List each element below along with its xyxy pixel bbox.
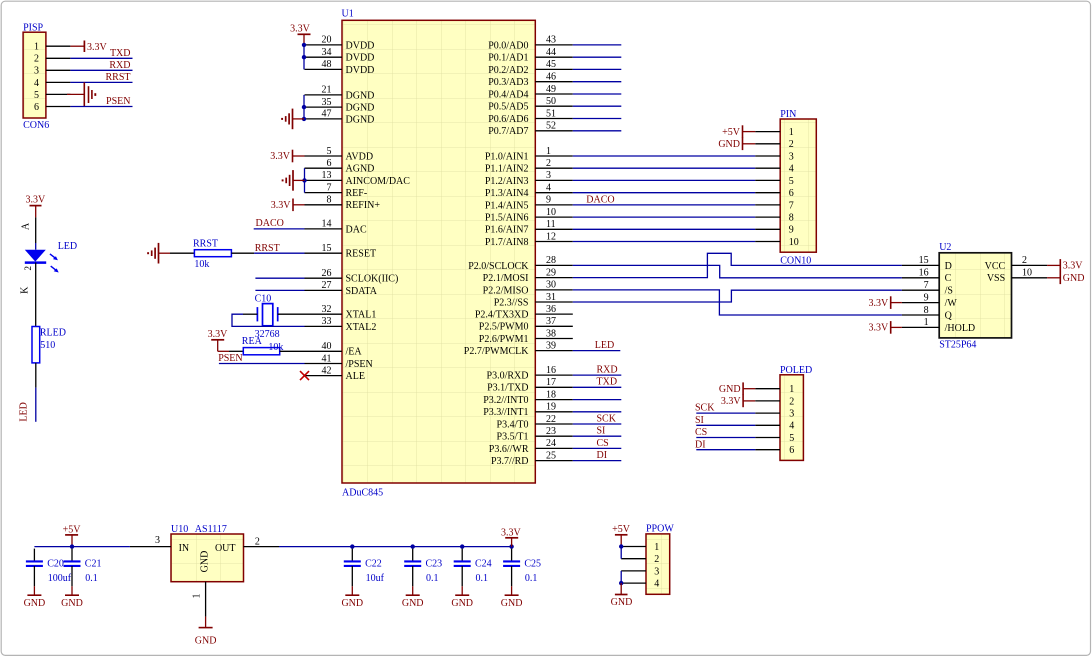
power 3.3V to AVDD pin5 bbox=[270, 150, 304, 163]
U1 pin 24 P3.6//WR bbox=[489, 438, 573, 455]
svg-text:AS1117: AS1117 bbox=[195, 524, 227, 535]
wire net LED below RLED bbox=[19, 363, 36, 422]
svg-text:REA: REA bbox=[242, 336, 263, 347]
U1 pin 19 P3.3//INT1 bbox=[483, 402, 573, 419]
U1 pin 37 P2.5/PWM0 bbox=[479, 316, 573, 333]
svg-text:3.3V: 3.3V bbox=[721, 396, 742, 407]
svg-text:0.1: 0.1 bbox=[426, 573, 439, 584]
capacitor C22 bbox=[344, 549, 385, 587]
svg-text:DGND: DGND bbox=[346, 114, 375, 125]
svg-text:AINCOM/DAC: AINCOM/DAC bbox=[346, 176, 411, 187]
power +5V at CON10 pin1 bbox=[722, 125, 755, 138]
wire P3 stub nc bbox=[573, 399, 622, 401]
U1 pin 42 ALE bbox=[305, 365, 365, 382]
power 3.3V at LED anode bbox=[26, 195, 47, 218]
U1 pin 31 P2.3//SS bbox=[494, 292, 573, 309]
wire DVDD vertical bbox=[303, 45, 305, 70]
svg-text:18: 18 bbox=[546, 389, 556, 400]
U1 pin 43 P0.0/AD0 bbox=[488, 35, 573, 52]
regulator U10 AS1117 bbox=[171, 524, 244, 582]
wire P0 stub bbox=[573, 118, 622, 120]
power GND at POLED pin1 bbox=[719, 382, 755, 395]
svg-text:C21: C21 bbox=[85, 558, 102, 569]
svg-text:DAC: DAC bbox=[346, 224, 367, 235]
U1 pin 5 AVDD bbox=[305, 146, 374, 163]
svg-text:CS: CS bbox=[597, 438, 609, 449]
svg-text:43: 43 bbox=[546, 35, 556, 46]
svg-text:5: 5 bbox=[34, 90, 39, 101]
wire P1.7 to CON10 bbox=[573, 241, 755, 243]
svg-text:12: 12 bbox=[546, 231, 556, 242]
power +5V at PPOW pins1-2 bbox=[612, 524, 631, 547]
svg-text:9: 9 bbox=[546, 195, 551, 206]
IC U2 ST25P64 box bbox=[939, 242, 1011, 351]
wire P1.6 to CON10 bbox=[573, 228, 755, 230]
U1 pin 33 XTAL2 bbox=[305, 316, 377, 333]
svg-text:GND: GND bbox=[341, 598, 363, 609]
U1 pin 8 REFIN+ bbox=[305, 195, 381, 212]
U1 pin 26 SCLOK(IIC) bbox=[305, 268, 399, 285]
svg-text:XTAL2: XTAL2 bbox=[346, 322, 377, 333]
wire P3 stub SCK bbox=[573, 413, 622, 424]
svg-text:2: 2 bbox=[1022, 255, 1027, 266]
svg-text:C25: C25 bbox=[524, 558, 541, 569]
svg-text:2: 2 bbox=[23, 266, 33, 271]
U1 pin 40 /EA bbox=[305, 341, 363, 358]
crystal C10 32768 bbox=[255, 293, 280, 340]
U2 pin 8 Q bbox=[902, 305, 953, 322]
svg-text:RRST: RRST bbox=[255, 243, 280, 254]
svg-text:31: 31 bbox=[546, 292, 556, 303]
svg-text:3.3V: 3.3V bbox=[868, 298, 889, 309]
svg-text:ADuC845: ADuC845 bbox=[342, 488, 383, 499]
svg-text:PSEN: PSEN bbox=[218, 353, 242, 364]
svg-text:13: 13 bbox=[322, 170, 332, 181]
U1 pin 36 P2.4/TX3XD bbox=[475, 304, 573, 321]
LED D? diode symbol bbox=[23, 241, 77, 273]
svg-text:A: A bbox=[20, 222, 31, 230]
svg-text:51: 51 bbox=[546, 108, 556, 119]
svg-text:30: 30 bbox=[546, 280, 556, 291]
U1 pin 47 DGND bbox=[305, 109, 375, 126]
ground symbol below C20 bbox=[24, 586, 46, 609]
svg-text:GND: GND bbox=[451, 598, 473, 609]
svg-text:PIN: PIN bbox=[780, 109, 796, 120]
svg-text:2: 2 bbox=[789, 396, 794, 407]
wire P0 stub bbox=[573, 130, 622, 132]
svg-text:2: 2 bbox=[255, 537, 260, 548]
power 3.3V at POLED pin2 bbox=[721, 395, 755, 408]
svg-text:U2: U2 bbox=[939, 242, 951, 253]
svg-text:+5V: +5V bbox=[722, 127, 741, 138]
U1 pin 7 REF- bbox=[305, 182, 368, 199]
wire P1.0 to CON10 bbox=[573, 155, 755, 157]
svg-text:40: 40 bbox=[322, 341, 332, 352]
U1 pin 44 P0.1/AD1 bbox=[488, 47, 573, 64]
U1 pin 23 P3.5/T1 bbox=[497, 426, 573, 443]
svg-text:11: 11 bbox=[546, 219, 556, 230]
svg-text:C23: C23 bbox=[426, 558, 443, 569]
svg-text:RXD: RXD bbox=[109, 60, 130, 71]
wire net DI to POLED bbox=[695, 439, 755, 450]
svg-text:P1.7/AIN8: P1.7/AIN8 bbox=[485, 237, 529, 248]
svg-text:21: 21 bbox=[322, 85, 332, 96]
svg-text:24: 24 bbox=[546, 438, 556, 449]
wire P2.3//SS to U2 /S bbox=[573, 290, 902, 302]
node DACO label on P1.4 wire bbox=[586, 194, 614, 205]
wire net RRST PISP pin4 bbox=[70, 72, 132, 83]
svg-text:P0.0/AD0: P0.0/AD0 bbox=[488, 40, 528, 51]
svg-text:46: 46 bbox=[546, 72, 556, 83]
svg-text:3.3V: 3.3V bbox=[868, 323, 889, 334]
junction DGND bbox=[302, 105, 306, 121]
svg-text:/S: /S bbox=[945, 286, 953, 297]
U1 pin 4 P1.3/AIN4 bbox=[485, 183, 573, 200]
svg-text:DACO: DACO bbox=[586, 194, 614, 205]
U1 pin 17 P3.1/TXD bbox=[487, 377, 573, 394]
U1 pin 32 XTAL1 bbox=[305, 304, 377, 321]
U1 pin 22 P3.4/T0 bbox=[497, 414, 573, 431]
svg-text:ST25P64: ST25P64 bbox=[939, 339, 976, 350]
svg-text:P1.2/AIN3: P1.2/AIN3 bbox=[485, 176, 529, 187]
U1 pin 13 AINCOM/DAC bbox=[305, 170, 411, 187]
svg-text:GND: GND bbox=[200, 551, 211, 573]
svg-text:PPOW: PPOW bbox=[646, 523, 674, 534]
U2 pin 1 /HOLD bbox=[902, 317, 975, 334]
svg-text:35: 35 bbox=[322, 97, 332, 108]
wire P3 stub TXD bbox=[573, 377, 622, 388]
ground symbol at PISP pin5 bbox=[67, 82, 95, 106]
svg-text:19: 19 bbox=[546, 402, 556, 413]
svg-text:15: 15 bbox=[919, 255, 929, 266]
power 3.3V at U2 /W bbox=[868, 296, 901, 309]
U10 pin 3 IN bbox=[130, 535, 171, 546]
svg-text:17: 17 bbox=[546, 377, 556, 388]
U1 pin 9 P1.4/AIN5 bbox=[485, 195, 573, 212]
wire input rail bbox=[34, 546, 129, 548]
svg-text:26: 26 bbox=[322, 268, 332, 279]
U1 pin 35 DGND bbox=[305, 97, 375, 114]
svg-text:5: 5 bbox=[327, 146, 332, 157]
U2 pin 9 /W bbox=[902, 292, 957, 309]
wire P1.3 to CON10 bbox=[573, 192, 755, 194]
capacitor C25 bbox=[503, 549, 541, 587]
svg-text:38: 38 bbox=[546, 328, 556, 339]
svg-text:K: K bbox=[20, 286, 31, 294]
node RRST label bbox=[255, 243, 280, 254]
power 3.3V to REA resistor bbox=[208, 329, 229, 351]
svg-text:9: 9 bbox=[789, 225, 794, 236]
resistor REA 10k bbox=[242, 336, 284, 355]
svg-text:7: 7 bbox=[924, 280, 929, 291]
svg-text:P3.2//INT0: P3.2//INT0 bbox=[483, 395, 528, 406]
svg-text:P3.5/T1: P3.5/T1 bbox=[497, 432, 529, 443]
svg-text:22: 22 bbox=[546, 414, 556, 425]
ground symbol AGND bbox=[283, 170, 305, 191]
svg-text:P2.3//SS: P2.3//SS bbox=[494, 297, 529, 308]
wire net PSEN PISP pin6 bbox=[70, 96, 132, 107]
connector PIN CON10 bbox=[755, 109, 816, 266]
svg-text:14: 14 bbox=[322, 219, 332, 230]
ground symbol below U10 bbox=[195, 617, 217, 647]
U1 pin 21 DGND bbox=[305, 85, 375, 102]
ground symbol DGND bbox=[282, 109, 304, 130]
wire P1.1 to CON10 bbox=[573, 167, 755, 169]
svg-text:50: 50 bbox=[546, 96, 556, 107]
U2 pin 7 /S bbox=[902, 280, 953, 297]
wire P0 stub bbox=[573, 105, 622, 107]
U1 pin 30 P2.2/MISO bbox=[483, 280, 573, 297]
power 3.3V to REFIN+ pin8 bbox=[271, 199, 305, 212]
wire P0 stub bbox=[573, 93, 622, 95]
wire PPOW pin3-4 tie bbox=[619, 571, 623, 585]
svg-text:VCC: VCC bbox=[985, 261, 1006, 272]
svg-text:4: 4 bbox=[34, 78, 39, 89]
U1 pin 6 AGND bbox=[305, 158, 375, 175]
svg-text:P2.7/PWMCLK: P2.7/PWMCLK bbox=[464, 346, 530, 357]
svg-text:3: 3 bbox=[34, 66, 39, 77]
svg-text:10: 10 bbox=[546, 207, 556, 218]
capacitor C21 bbox=[64, 549, 102, 587]
svg-text:DVDD: DVDD bbox=[346, 40, 375, 51]
U1 pin 41 /PSEN bbox=[305, 353, 373, 370]
svg-text:RRST: RRST bbox=[193, 238, 218, 249]
power 3.3V at PISP pin1 bbox=[70, 41, 107, 54]
svg-text:8: 8 bbox=[924, 305, 929, 316]
svg-text:41: 41 bbox=[322, 353, 332, 364]
svg-text:45: 45 bbox=[546, 59, 556, 70]
svg-text:6: 6 bbox=[327, 158, 332, 169]
svg-text:3.3V: 3.3V bbox=[87, 42, 108, 53]
U1 pin 50 P0.5/AD5 bbox=[488, 96, 573, 113]
svg-text:5: 5 bbox=[789, 176, 794, 187]
ground symbol below C23 bbox=[402, 586, 424, 609]
svg-text:1: 1 bbox=[789, 384, 794, 395]
svg-text:3.3V: 3.3V bbox=[26, 195, 47, 206]
wire P1.5 to CON10 bbox=[573, 216, 755, 218]
svg-text:LED: LED bbox=[595, 340, 614, 351]
U1 pin 11 P1.6/AIN7 bbox=[485, 219, 573, 236]
svg-text:P0.2/AD2: P0.2/AD2 bbox=[488, 65, 528, 76]
svg-text:16: 16 bbox=[546, 365, 556, 376]
svg-text:10: 10 bbox=[789, 237, 799, 248]
svg-text:3.3V: 3.3V bbox=[270, 151, 291, 162]
ground symbol below C22 bbox=[341, 586, 363, 609]
svg-text:P0.1/AD1: P0.1/AD1 bbox=[488, 53, 528, 64]
svg-text:P1.0/AIN1: P1.0/AIN1 bbox=[485, 151, 529, 162]
svg-text:4: 4 bbox=[789, 164, 794, 175]
svg-text:1: 1 bbox=[34, 42, 39, 53]
svg-text:0.1: 0.1 bbox=[85, 573, 98, 584]
svg-text:5: 5 bbox=[789, 433, 794, 444]
svg-text:C22: C22 bbox=[365, 558, 382, 569]
svg-text:AGND: AGND bbox=[346, 164, 375, 175]
U1 pin 18 P3.2//INT0 bbox=[483, 389, 573, 406]
svg-text:GND: GND bbox=[402, 598, 424, 609]
U1 pin 10 P1.5/AIN6 bbox=[485, 207, 573, 224]
svg-text:P0.4/AD4: P0.4/AD4 bbox=[488, 89, 528, 100]
U1 pin 14 DAC bbox=[305, 219, 367, 236]
svg-text:DVDD: DVDD bbox=[346, 53, 375, 64]
svg-text:6: 6 bbox=[34, 102, 39, 113]
ground symbol below C21 bbox=[61, 586, 83, 609]
svg-text:SCK: SCK bbox=[695, 403, 715, 414]
U1 pin 16 P3.0/RXD bbox=[487, 365, 573, 382]
svg-text:P1.3/AIN4: P1.3/AIN4 bbox=[485, 188, 529, 199]
svg-text:SI: SI bbox=[695, 415, 704, 426]
wire P3 stub CS bbox=[573, 438, 622, 449]
svg-text:XTAL1: XTAL1 bbox=[346, 310, 377, 321]
svg-text:LED: LED bbox=[58, 241, 77, 252]
svg-text:42: 42 bbox=[322, 365, 332, 376]
svg-text:10uf: 10uf bbox=[366, 573, 385, 584]
svg-text:GND: GND bbox=[611, 597, 633, 608]
wire SCLOK pin26 bbox=[255, 277, 304, 279]
wire output rail bbox=[279, 546, 512, 548]
svg-text:16: 16 bbox=[919, 268, 929, 279]
svg-text:23: 23 bbox=[546, 426, 556, 437]
svg-text:28: 28 bbox=[546, 255, 556, 266]
wire P2.7/PWMCLK stub net LED bbox=[573, 340, 621, 351]
svg-text:P3.6//WR: P3.6//WR bbox=[489, 444, 529, 455]
wire RRST resistor to pin15 bbox=[231, 252, 304, 254]
wire P1.2 to CON10 bbox=[573, 179, 755, 181]
wire P0 stub bbox=[573, 44, 622, 46]
svg-text:OUT: OUT bbox=[215, 543, 236, 554]
svg-text:DVDD: DVDD bbox=[346, 65, 375, 76]
svg-text:SCK: SCK bbox=[597, 413, 617, 424]
capacitor C23 bbox=[404, 549, 442, 587]
wire P2.1/MOSI to U2 D (with hop) bbox=[573, 253, 902, 277]
svg-text:3: 3 bbox=[789, 409, 794, 420]
wire net PSEN to pin41 bbox=[219, 363, 305, 365]
svg-text:100uf: 100uf bbox=[48, 573, 72, 584]
svg-text:GND: GND bbox=[501, 598, 523, 609]
svg-text:REFIN+: REFIN+ bbox=[346, 200, 381, 211]
svg-text:49: 49 bbox=[546, 84, 556, 95]
wire PPOW pin1-2 tie bbox=[619, 544, 623, 558]
svg-text:GND: GND bbox=[718, 139, 740, 150]
wire DGND vertical bbox=[303, 95, 305, 119]
svg-text:P3.3//INT1: P3.3//INT1 bbox=[483, 407, 528, 418]
power GND at U2 VSS bbox=[1047, 272, 1084, 285]
svg-text:C20: C20 bbox=[47, 558, 64, 569]
U1 pin 52 P0.7/AD7 bbox=[488, 121, 573, 138]
svg-text:3: 3 bbox=[155, 535, 160, 546]
svg-text:C10: C10 bbox=[255, 293, 272, 304]
svg-text:P2.1/MOSI: P2.1/MOSI bbox=[483, 273, 529, 284]
svg-text:7: 7 bbox=[327, 182, 332, 193]
svg-text:P0.5/AD5: P0.5/AD5 bbox=[488, 102, 528, 113]
U1 pin 12 P1.7/AIN8 bbox=[485, 231, 573, 248]
svg-text:9: 9 bbox=[924, 292, 929, 303]
svg-text:/PSEN: /PSEN bbox=[346, 359, 373, 370]
resistor RLED 510 bbox=[32, 327, 66, 363]
svg-text:LED: LED bbox=[19, 402, 30, 421]
svg-text:DI: DI bbox=[695, 439, 706, 450]
svg-text:U10: U10 bbox=[171, 524, 188, 535]
svg-text:GND: GND bbox=[61, 598, 83, 609]
svg-text:SI: SI bbox=[597, 426, 606, 437]
svg-text:3: 3 bbox=[654, 566, 659, 577]
svg-text:7: 7 bbox=[789, 200, 794, 211]
svg-text:32: 32 bbox=[322, 304, 332, 315]
svg-text:P1.6/AIN7: P1.6/AIN7 bbox=[485, 225, 529, 236]
capacitor C20 bbox=[26, 549, 72, 587]
wire P2.0/SCLOCK to U2 C bbox=[573, 265, 902, 277]
svg-text:4: 4 bbox=[789, 421, 794, 432]
svg-text:RESET: RESET bbox=[346, 249, 377, 260]
svg-text:3.3V: 3.3V bbox=[271, 200, 292, 211]
U1 pin 15 RESET bbox=[305, 243, 377, 260]
svg-text:2: 2 bbox=[34, 54, 39, 65]
svg-text:1: 1 bbox=[924, 317, 929, 328]
wire REA to /EA pin40 bbox=[280, 350, 305, 352]
svg-text:P0.7/AD7: P0.7/AD7 bbox=[488, 126, 528, 137]
wire P3 stub DI bbox=[573, 450, 622, 461]
svg-text:GND: GND bbox=[195, 635, 217, 646]
svg-text:510: 510 bbox=[40, 340, 55, 351]
wire net RXD PISP pin3 bbox=[70, 60, 132, 71]
svg-text:P2.6/PWM1: P2.6/PWM1 bbox=[479, 334, 529, 345]
svg-text:15: 15 bbox=[322, 243, 332, 254]
svg-text:3: 3 bbox=[546, 170, 551, 181]
wire crystal loop to XTAL2 pin33 bbox=[232, 314, 305, 326]
power +5V at input rail bbox=[63, 524, 82, 546]
wire P0 stub bbox=[573, 68, 622, 70]
svg-text:1: 1 bbox=[654, 542, 659, 553]
svg-text:3.3V: 3.3V bbox=[290, 24, 311, 35]
U2 pin 15 D bbox=[902, 255, 952, 272]
svg-text:P3.7//RD: P3.7//RD bbox=[491, 456, 529, 467]
wire P1.4 to CON10 bbox=[573, 204, 755, 206]
wire P3 stub SI bbox=[573, 426, 622, 437]
svg-text:TXD: TXD bbox=[597, 377, 618, 388]
svg-text:AVDD: AVDD bbox=[346, 151, 374, 162]
wire P2.2/MISO to U2 Q bbox=[573, 290, 902, 315]
node PSEN label bbox=[218, 353, 242, 364]
ground symbol at RRST resistor bbox=[148, 243, 170, 264]
svg-text:SCLOK(IIC): SCLOK(IIC) bbox=[346, 274, 399, 285]
wire net DACO at pin14 bbox=[254, 228, 305, 230]
U1 pin 27 SDATA bbox=[305, 280, 378, 297]
U1 pin 29 P2.1/MOSI bbox=[483, 267, 573, 284]
svg-text:IN: IN bbox=[179, 543, 190, 554]
junction caps on output rail bbox=[350, 544, 514, 548]
U1 pin 3 P1.2/AIN3 bbox=[485, 170, 573, 187]
svg-text:34: 34 bbox=[322, 47, 332, 58]
wire net TXD PISP pin2 bbox=[70, 48, 132, 59]
svg-text:48: 48 bbox=[322, 59, 332, 70]
svg-text:DGND: DGND bbox=[346, 103, 375, 114]
svg-text:ALE: ALE bbox=[346, 371, 365, 382]
wire SDATA pin27 bbox=[255, 289, 304, 291]
resistor RRST 10k bbox=[193, 238, 231, 270]
svg-text:3.3V: 3.3V bbox=[1063, 261, 1084, 272]
svg-text:P2.4/TX3XD: P2.4/TX3XD bbox=[475, 310, 529, 321]
no-connect X at ALE pin42 bbox=[300, 371, 309, 380]
wire cathode, node K bbox=[20, 263, 36, 327]
svg-text:GND: GND bbox=[1063, 273, 1085, 284]
svg-text:3.3V: 3.3V bbox=[208, 329, 229, 340]
svg-text:C: C bbox=[945, 273, 952, 284]
capacitor C24 bbox=[454, 549, 492, 587]
svg-text:/W: /W bbox=[945, 298, 958, 309]
svg-text:VSS: VSS bbox=[987, 273, 1005, 284]
svg-text:GND: GND bbox=[24, 598, 46, 609]
U1 pin 34 DVDD bbox=[305, 47, 375, 64]
svg-text:8: 8 bbox=[327, 195, 332, 206]
